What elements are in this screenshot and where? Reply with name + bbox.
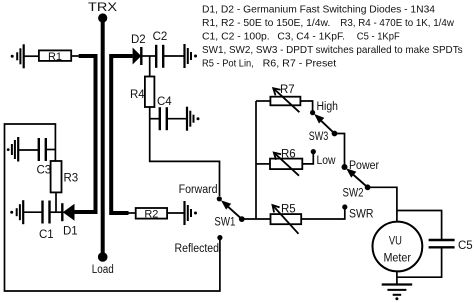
wire D2 to C2 with junction branch [141, 55, 155, 57]
ground at C2 [185, 44, 198, 68]
wire C4 to ground [167, 118, 187, 120]
wire C5 bottom to VU bottom junction [397, 247, 442, 277]
preset R7 (pot) [270, 84, 300, 112]
node Low [311, 149, 336, 167]
wire bus to R7 [256, 100, 270, 102]
wire center conductor TRX to Load (thick) [101, 18, 105, 257]
wire ground to R1 [24, 55, 39, 57]
svg-text:Meter: Meter [383, 251, 411, 265]
wire R6 to Low node [302, 152, 313, 164]
wire C2 to ground [163, 55, 184, 57]
svg-text:D2: D2 [131, 34, 146, 46]
svg-text:SWR: SWR [349, 209, 374, 221]
svg-text:C5 - 1KpF: C5 - 1KpF [357, 31, 400, 43]
ground at C3 [7, 137, 18, 162]
svg-text:Power: Power [349, 160, 379, 172]
svg-text:Low: Low [317, 155, 337, 167]
svg-text:High: High [317, 101, 339, 113]
wire SW2 pole to VU meter top [368, 187, 397, 223]
wire ground to C1 [23, 211, 42, 213]
switch SW3 (pole dot, lever arm to High) [309, 114, 338, 143]
diode D2 [131, 34, 146, 65]
svg-text:C4: C4 [157, 96, 172, 108]
wire R2 to ground [167, 212, 184, 214]
switch SW1 (pole dot, lever arm to Forward) [214, 200, 244, 228]
svg-text:R3: R3 [64, 173, 79, 185]
wire right sense line (thick): D2 top to R2 bottom [111, 56, 132, 213]
wire reflected sampling loop: C3/R3 node up, around left and bottom, to Reflected node [5, 124, 220, 291]
wire bus to R6 [256, 163, 270, 165]
capacitor C3 [37, 138, 52, 177]
svg-text:R4: R4 [130, 89, 145, 101]
node TRX (dot) [88, 2, 117, 23]
svg-text:R3, R4 - 470E to 1K, 1/4w: R3, R4 - 470E to 1K, 1/4w [340, 17, 454, 29]
switch SW2 (pole dot, lever arm to Power) [343, 168, 371, 199]
svg-text:D1: D1 [63, 226, 78, 238]
wire C1 to D1 [50, 211, 63, 213]
wire ground to C3 [18, 149, 38, 151]
meter VU [373, 222, 423, 272]
svg-text:C5: C5 [458, 240, 473, 252]
svg-text:SW1: SW1 [214, 216, 235, 228]
resistor R3 [51, 161, 79, 192]
ground at R1 [11, 44, 24, 68]
wire R1 to left sense line [71, 55, 79, 57]
svg-text:Forward: Forward [179, 184, 218, 196]
note text block [202, 4, 463, 70]
svg-text:R6, R7 - Preset: R6, R7 - Preset [263, 58, 337, 70]
svg-text:TRX: TRX [88, 2, 117, 14]
svg-text:R1, R2 - 50E to 150E, 1/4w.: R1, R2 - 50E to 150E, 1/4w. [202, 17, 330, 29]
wire C3 to R3 node [46, 149, 56, 151]
svg-text:R6: R6 [281, 149, 296, 161]
pot R5 [271, 204, 302, 234]
capacitor C2 [153, 31, 168, 68]
svg-text:C2: C2 [153, 31, 168, 43]
resistor R2 [136, 208, 167, 221]
wire SW3 pole right and down to Power node [335, 134, 345, 168]
node Reflected [175, 235, 223, 255]
svg-text:C1: C1 [39, 229, 54, 241]
wire junction to C5 branch [397, 211, 442, 240]
svg-text:R5: R5 [281, 204, 296, 216]
preset R6 (pot) [270, 149, 302, 176]
node SWR [342, 204, 373, 220]
svg-text:SW3: SW3 [309, 131, 329, 143]
svg-text:Load: Load [92, 264, 114, 276]
capacitor C5 [429, 240, 473, 252]
wire R3 down to C1/D1 row [55, 192, 57, 212]
svg-text:R2: R2 [144, 209, 158, 221]
svg-text:C1, C2 - 100p.: C1, C2 - 100p. [202, 31, 270, 43]
resistor R1 [39, 50, 71, 63]
svg-text:R7: R7 [280, 84, 295, 96]
wire R7 to High node [300, 101, 312, 113]
wire VU bottom to ground [396, 271, 398, 285]
svg-text:VU: VU [389, 234, 402, 248]
wire D2/C2 node down to R4 [149, 56, 151, 77]
capacitor C4 [157, 96, 172, 130]
svg-text:C3, C4 - 1KpF.: C3, C4 - 1KpF. [277, 31, 345, 43]
wire attenuator left bus [255, 101, 257, 219]
wire left sense line (thick): R1 top to D1 bottom [74, 56, 95, 212]
svg-text:Reflected: Reflected [175, 243, 220, 255]
wire R2 stub to R2 box [127, 212, 136, 214]
svg-text:C3: C3 [37, 165, 52, 177]
diode D1 [62, 203, 77, 237]
svg-text:R5 - Pot Lin,: R5 - Pot Lin, [202, 58, 254, 70]
node Forward [179, 184, 222, 202]
ground at VU meter [382, 285, 413, 301]
resistor R4 [130, 77, 154, 108]
wire SW1 pole to attenuator bus [242, 218, 271, 220]
ground at C4 [187, 107, 200, 131]
capacitor C1 [39, 201, 54, 242]
svg-text:SW1, SW2, SW3 - DPDT switches: SW1, SW2, SW3 - DPDT switches paralled t… [202, 44, 463, 56]
ground at R2 [185, 201, 198, 225]
svg-text:SW2: SW2 [343, 188, 364, 200]
ground at C1 [10, 200, 23, 224]
wire R4 down, branch to C4, down then right and down to Forward node [150, 107, 220, 196]
wire R5 to SWR node [301, 207, 345, 219]
node Power [342, 160, 380, 172]
node High [310, 101, 338, 115]
node Load (dot) [92, 252, 114, 276]
svg-text:R1: R1 [48, 51, 62, 63]
svg-text:D1, D2 - Germanium Fast Switch: D1, D2 - Germanium Fast Switching Diodes… [202, 4, 435, 16]
